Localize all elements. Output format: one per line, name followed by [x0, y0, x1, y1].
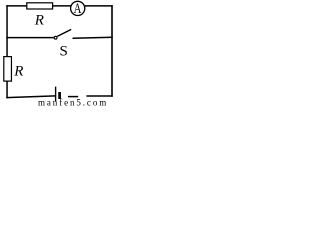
- svg-text:R: R: [13, 64, 23, 80]
- wire: bottom dash after battery: [68, 96, 78, 98]
- resistor R1 (top horizontal box): [27, 3, 53, 9]
- wire: top left segment: [6, 5, 27, 7]
- svg-text:R: R: [34, 12, 44, 28]
- wire: left vertical lower: [6, 81, 8, 98]
- switch S pivot circle: [54, 36, 57, 39]
- wire: middle left segment: [6, 37, 54, 39]
- wire: right vertical: [111, 5, 113, 97]
- svg-text:A: A: [74, 1, 82, 17]
- ammeter A1: [71, 1, 85, 15]
- wire: top right segment: [85, 5, 113, 7]
- wire: left vertical upper: [6, 5, 8, 56]
- resistor R2 (left vertical box): [4, 57, 12, 82]
- svg-text:manfen5.com: manfen5.com: [38, 98, 108, 107]
- switch S blade: [57, 29, 71, 36]
- svg-text:S: S: [60, 44, 68, 60]
- battery long positive plate: [55, 87, 57, 102]
- wire: middle right segment: [73, 37, 113, 38]
- wire: bottom right segment: [86, 95, 112, 97]
- battery short thick negative plate: [58, 92, 61, 99]
- wire: bottom left segment: [6, 96, 55, 98]
- wire: top segment between resistor and ammeter: [53, 5, 71, 7]
